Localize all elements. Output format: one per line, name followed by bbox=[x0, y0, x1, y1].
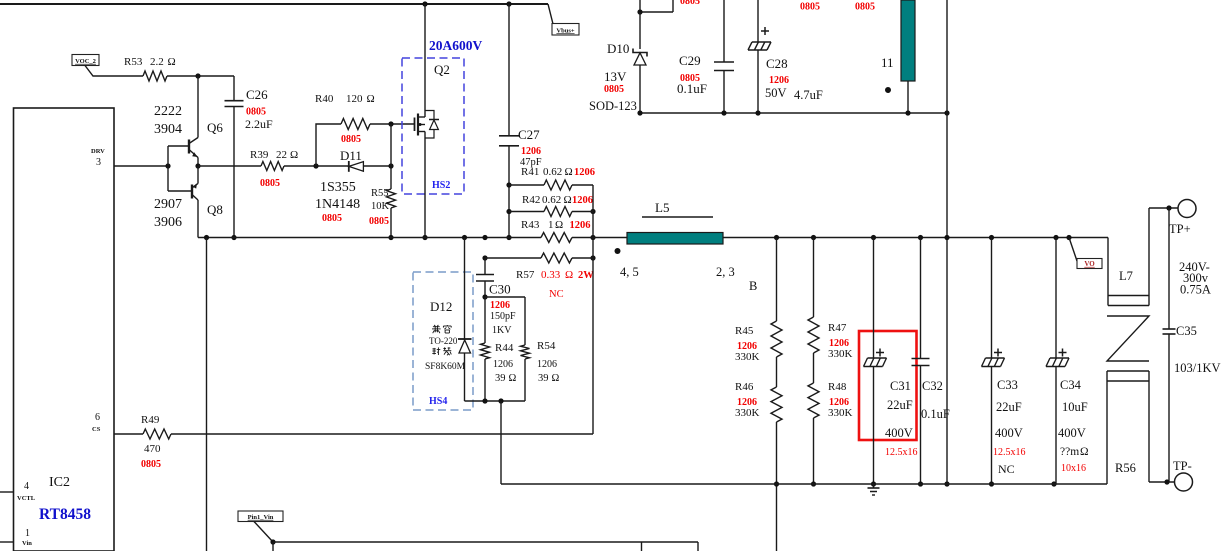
pin 3 DRV label bbox=[91, 148, 105, 168]
junction R41 left bbox=[506, 182, 511, 187]
svg-text:R49: R49 bbox=[141, 414, 160, 426]
label D12 bbox=[430, 299, 452, 314]
resistor R40 bbox=[341, 119, 370, 130]
label C30 bbox=[489, 282, 511, 297]
svg-text:D10: D10 bbox=[607, 41, 629, 56]
svg-text:1N4148: 1N4148 bbox=[315, 197, 360, 212]
label R40 bbox=[315, 93, 375, 145]
resistor R39 bbox=[261, 162, 284, 171]
junction C32 bottom bbox=[918, 481, 923, 486]
junction Pin1 node bbox=[270, 539, 275, 544]
label R43 bbox=[521, 219, 591, 231]
pin 6 CS label bbox=[92, 412, 101, 433]
wire Pin1 diag bbox=[254, 522, 273, 543]
wire D10 anode bbox=[639, 12, 641, 49]
svg-text:1KV: 1KV bbox=[492, 325, 512, 336]
svg-text:1206: 1206 bbox=[521, 146, 541, 157]
label IC2 bbox=[49, 475, 70, 490]
wire secondary ground rail bbox=[501, 483, 1107, 485]
resistor R55 bbox=[387, 189, 396, 208]
svg-text:0805: 0805 bbox=[604, 84, 624, 95]
svg-text:12.5x16: 12.5x16 bbox=[885, 447, 918, 458]
testpoint TP+ bbox=[1178, 200, 1196, 218]
resistor R41 bbox=[544, 180, 572, 190]
wire Q2 drain bbox=[424, 4, 426, 117]
svg-text:2.2: 2.2 bbox=[150, 56, 164, 68]
junction node VCC2-Q6 bbox=[195, 73, 200, 78]
wire CS pin6 bbox=[114, 433, 593, 435]
winding 11 bar bbox=[901, 0, 915, 81]
svg-text:1206: 1206 bbox=[572, 195, 593, 206]
label C32 bbox=[921, 379, 950, 421]
label TP+ bbox=[1169, 222, 1191, 236]
junction TP+ node bbox=[1166, 205, 1171, 210]
label D10 bbox=[607, 41, 629, 56]
svg-text:C27: C27 bbox=[518, 127, 540, 142]
label pins 2 3 bbox=[716, 265, 735, 279]
label 2907 bbox=[154, 197, 182, 212]
svg-text:VCTL: VCTL bbox=[17, 495, 36, 502]
svg-text:4: 4 bbox=[24, 481, 29, 492]
wire sense bus bbox=[592, 185, 594, 434]
label 0805 top cut bbox=[680, 0, 700, 7]
svg-text:150pF: 150pF bbox=[490, 311, 516, 322]
label R57 bbox=[516, 269, 594, 281]
label D12 package bbox=[429, 336, 458, 346]
svg-text:Ω: Ω bbox=[168, 56, 176, 68]
svg-text:39: 39 bbox=[495, 373, 506, 384]
junction R48 bottom bbox=[811, 481, 816, 486]
svg-text:0805: 0805 bbox=[141, 459, 161, 470]
resistor R43 bbox=[541, 233, 572, 243]
svg-text:Ω: Ω bbox=[565, 269, 573, 281]
svg-text:IC2: IC2 bbox=[49, 475, 70, 490]
label D11 0805 bbox=[322, 213, 342, 224]
wire D10 top stub bbox=[640, 0, 673, 12]
label R45 bbox=[735, 325, 760, 363]
junction C26-gnd rail bbox=[231, 235, 236, 240]
svg-text:C32: C32 bbox=[922, 379, 943, 393]
svg-text:R42: R42 bbox=[522, 194, 540, 206]
svg-text:4.7uF: 4.7uF bbox=[794, 88, 823, 102]
label R47 bbox=[828, 322, 853, 360]
svg-text:39: 39 bbox=[538, 373, 549, 384]
label C35 value bbox=[1174, 361, 1221, 375]
svg-text:10K: 10K bbox=[371, 201, 390, 212]
svg-text:50V: 50V bbox=[765, 86, 787, 100]
IC U-IC2 box bbox=[14, 108, 115, 551]
wire secondary vertical bbox=[946, 0, 948, 484]
svg-text:Ω: Ω bbox=[552, 373, 560, 384]
junction C33 bottom bbox=[989, 481, 994, 486]
junction C31 top bbox=[871, 235, 876, 240]
svg-text:1206: 1206 bbox=[490, 300, 510, 311]
svg-text:400V: 400V bbox=[995, 426, 1023, 440]
label R49 bbox=[141, 414, 161, 470]
label pins 4 5 bbox=[620, 265, 639, 279]
junction DRV node bbox=[165, 163, 170, 168]
svg-text:R43: R43 bbox=[521, 219, 540, 231]
junction secondary rail bbox=[944, 235, 949, 240]
net flag Pin1_Vin bbox=[238, 511, 283, 522]
label R44 block bbox=[490, 300, 517, 384]
label C31 bbox=[885, 379, 918, 458]
junction C31 bottom bbox=[871, 481, 876, 486]
svg-text:2222: 2222 bbox=[154, 104, 182, 119]
svg-text:1206: 1206 bbox=[769, 75, 789, 86]
svg-text:D12: D12 bbox=[430, 299, 452, 314]
svg-text:0805: 0805 bbox=[855, 2, 875, 13]
svg-text:3904: 3904 bbox=[154, 122, 182, 137]
svg-text:HS4: HS4 bbox=[429, 396, 447, 407]
inductor L5 bar bbox=[627, 233, 723, 245]
svg-text:R46: R46 bbox=[735, 381, 754, 393]
svg-text:DRV: DRV bbox=[91, 148, 105, 155]
wire R39 to D11 bbox=[284, 165, 349, 167]
label 2222 bbox=[154, 104, 182, 119]
svg-text:330K: 330K bbox=[735, 407, 760, 419]
svg-text:2.2uF: 2.2uF bbox=[245, 117, 273, 131]
junction emitter node bbox=[195, 163, 200, 168]
label 20A600V bbox=[429, 38, 482, 53]
junction R55 rail bbox=[388, 235, 393, 240]
junction R45 top bbox=[774, 235, 779, 240]
label R48 bbox=[828, 381, 853, 419]
testpoint TP- bbox=[1175, 473, 1193, 491]
label L7 bbox=[1119, 269, 1133, 283]
capacitor C33 bbox=[982, 238, 1005, 485]
label Q8 bbox=[207, 202, 223, 217]
label 0805 top b bbox=[855, 2, 875, 13]
svg-text:4, 5: 4, 5 bbox=[620, 265, 639, 279]
svg-text:R40: R40 bbox=[315, 93, 334, 105]
svg-text:R54: R54 bbox=[537, 340, 556, 352]
resistor R42 bbox=[544, 207, 572, 217]
svg-text:R48: R48 bbox=[828, 381, 847, 393]
svg-text:3: 3 bbox=[96, 157, 101, 168]
svg-text:Q2: Q2 bbox=[434, 62, 450, 77]
core Z symbol bbox=[1107, 316, 1149, 361]
resistor R44 bbox=[481, 343, 490, 359]
label R56 bbox=[1115, 461, 1136, 475]
svg-text:NC: NC bbox=[549, 289, 564, 300]
svg-text:CS: CS bbox=[92, 426, 101, 433]
junction C28 bottom bbox=[755, 110, 760, 115]
wire VCC top rail bbox=[0, 4, 553, 24]
junction R57 right bbox=[590, 255, 595, 260]
svg-text:Ω: Ω bbox=[555, 219, 563, 231]
label node B bbox=[749, 279, 757, 293]
label R57 NC bbox=[549, 289, 564, 300]
wire C30 to box bbox=[484, 281, 486, 297]
svg-text:C34: C34 bbox=[1060, 378, 1082, 392]
resistor R54 bbox=[521, 345, 530, 359]
label C26 bbox=[245, 87, 273, 131]
capacitor C34 bbox=[1046, 238, 1069, 485]
heatsink box HS4 bbox=[413, 272, 473, 410]
wire DRV pin3 bbox=[114, 165, 168, 167]
svg-text:Ω: Ω bbox=[565, 166, 573, 178]
label C27 bbox=[518, 127, 542, 168]
wire R42 row bbox=[509, 211, 593, 213]
svg-text:B: B bbox=[749, 279, 757, 293]
svg-text:SOD-123: SOD-123 bbox=[589, 99, 637, 113]
wire R40 to gate bbox=[370, 123, 415, 125]
svg-text:R55: R55 bbox=[371, 188, 389, 199]
svg-text:1S355: 1S355 bbox=[320, 180, 356, 195]
wire C26 bottom lead bbox=[233, 107, 235, 238]
core line L5 bbox=[642, 216, 713, 218]
capacitor C31 bbox=[864, 238, 887, 485]
capacitor C28 bbox=[748, 0, 771, 113]
junction R42 right bbox=[590, 209, 595, 214]
label 13V bbox=[604, 69, 627, 84]
svg-text:0805: 0805 bbox=[369, 216, 389, 227]
junction R43 left bbox=[506, 235, 511, 240]
svg-text:11: 11 bbox=[881, 55, 894, 70]
svg-text:HS2: HS2 bbox=[432, 180, 450, 191]
svg-text:0.1uF: 0.1uF bbox=[677, 81, 707, 96]
label SOD-123 bbox=[589, 99, 637, 113]
svg-text:470: 470 bbox=[144, 443, 161, 455]
wire C27 top lead bbox=[508, 4, 510, 136]
svg-text:400V: 400V bbox=[1058, 426, 1086, 440]
svg-text:3906: 3906 bbox=[154, 215, 182, 230]
junction winding 11 bottom bbox=[905, 110, 910, 115]
wire VO diag bbox=[1069, 238, 1077, 262]
svg-text:L5: L5 bbox=[655, 200, 669, 215]
svg-text:0805: 0805 bbox=[322, 213, 342, 224]
label R54 block bbox=[537, 340, 560, 384]
junction D10 top bbox=[637, 9, 642, 14]
junction VO tap bbox=[1066, 235, 1071, 240]
svg-text:C26: C26 bbox=[246, 87, 268, 102]
label SF8K60M bbox=[425, 362, 466, 372]
capacitor C29 bbox=[714, 0, 734, 113]
svg-text:VO: VO bbox=[1084, 260, 1095, 268]
label R55 bbox=[369, 188, 390, 227]
label R53 bbox=[124, 56, 176, 68]
resistor R56 body bbox=[1107, 371, 1149, 484]
svg-text:103/1KV: 103/1KV bbox=[1174, 361, 1221, 375]
wire Q2 source bbox=[424, 132, 426, 238]
svg-text:C31: C31 bbox=[890, 379, 911, 393]
svg-text:22: 22 bbox=[276, 149, 287, 161]
svg-text:1206: 1206 bbox=[493, 359, 513, 370]
svg-text:0.75A: 0.75A bbox=[1180, 283, 1211, 297]
svg-text:L7: L7 bbox=[1119, 269, 1133, 283]
svg-text:R45: R45 bbox=[735, 325, 754, 337]
wire C30 top lead bbox=[484, 258, 486, 274]
transistor Q6 bbox=[168, 76, 198, 166]
wire vertical down from rail bbox=[206, 238, 208, 551]
svg-text:Pin1_Vin: Pin1_Vin bbox=[248, 514, 274, 521]
svg-text:1206: 1206 bbox=[574, 167, 595, 178]
label C35 bbox=[1176, 324, 1197, 338]
svg-text:2907: 2907 bbox=[154, 197, 182, 212]
svg-text:1: 1 bbox=[25, 528, 30, 539]
svg-text:2W: 2W bbox=[578, 270, 594, 281]
svg-text:Ω: Ω bbox=[290, 149, 298, 161]
junction Q2 drain top bbox=[422, 1, 427, 6]
capacitor C27 bbox=[499, 136, 519, 146]
label C29 bbox=[677, 53, 707, 96]
svg-text:C33: C33 bbox=[997, 378, 1018, 392]
svg-text:C35: C35 bbox=[1176, 324, 1197, 338]
svg-text:Ω: Ω bbox=[1080, 446, 1089, 458]
wire R40 branch bbox=[316, 124, 341, 166]
net flag VO bbox=[1077, 259, 1102, 269]
svg-text:22uF: 22uF bbox=[887, 398, 913, 412]
svg-text:Ω: Ω bbox=[509, 373, 517, 384]
svg-text:Ω: Ω bbox=[367, 93, 375, 105]
wire emitter to R39 bbox=[198, 165, 261, 167]
wire TP+ lead bbox=[1149, 207, 1178, 209]
wire pin1 stub bbox=[0, 541, 14, 543]
svg-text:330K: 330K bbox=[735, 351, 760, 363]
junction D10 bottom bbox=[637, 110, 642, 115]
transistor Q8 bbox=[168, 166, 198, 238]
svg-text:R47: R47 bbox=[828, 322, 847, 334]
junction Q2 source rail bbox=[422, 235, 427, 240]
label D11 bbox=[340, 148, 362, 163]
junction sec rail bottom bbox=[944, 481, 949, 486]
svg-text:SF8K60M: SF8K60M bbox=[425, 362, 466, 372]
svg-text:Q8: Q8 bbox=[207, 202, 223, 217]
polarity dot winding 11 bbox=[885, 87, 891, 93]
polarity dot L5 bbox=[615, 248, 621, 254]
label 1S355 bbox=[320, 180, 356, 195]
junction C33 top bbox=[989, 235, 994, 240]
capacitor C32 bbox=[912, 238, 930, 485]
label TP- bbox=[1173, 459, 1192, 473]
label D12 chinese1 bbox=[432, 325, 451, 333]
label C33 bbox=[993, 378, 1026, 476]
junction C30 rail bbox=[482, 235, 487, 240]
svg-text:VOC_2: VOC_2 bbox=[75, 58, 96, 65]
junction R40 tap bbox=[313, 163, 318, 168]
svg-text:0805: 0805 bbox=[260, 178, 280, 189]
junction R57 left bbox=[482, 255, 487, 260]
wire TP- lead bbox=[1149, 481, 1174, 483]
svg-text:Vbus+: Vbus+ bbox=[556, 27, 574, 34]
resistor R48 bbox=[808, 383, 819, 484]
svg-text:RT8458: RT8458 bbox=[39, 506, 91, 523]
heatsink box HS2 bbox=[402, 58, 464, 194]
svg-text:D11: D11 bbox=[340, 148, 362, 163]
junction R46 bottom bbox=[774, 481, 779, 486]
svg-text:Vin: Vin bbox=[22, 540, 32, 547]
svg-text:0805: 0805 bbox=[341, 134, 361, 145]
capacitor C26 bbox=[225, 101, 244, 107]
svg-text:C29: C29 bbox=[679, 53, 701, 68]
wire aux gnd rail bbox=[640, 112, 947, 114]
label C28 bbox=[765, 56, 823, 102]
svg-text:0805: 0805 bbox=[246, 107, 266, 118]
svg-text:R39: R39 bbox=[250, 149, 269, 161]
net flag Vbus+ bbox=[552, 24, 579, 36]
svg-text:0805: 0805 bbox=[680, 0, 700, 7]
resistor R49 bbox=[143, 429, 171, 439]
svg-text:R41: R41 bbox=[521, 166, 539, 178]
svg-text:12.5x16: 12.5x16 bbox=[993, 447, 1026, 458]
junction C27 top bbox=[506, 1, 511, 6]
diode D10 zener bbox=[633, 49, 647, 114]
label 1N4148 bbox=[315, 197, 360, 212]
wire VOC_2 to R53 bbox=[85, 66, 143, 77]
wire R53 to C26 bbox=[167, 75, 234, 77]
resistor R46 bbox=[771, 387, 782, 551]
junction R47 top bbox=[811, 235, 816, 240]
junction box top-left bbox=[482, 294, 487, 299]
highlight box C31 bbox=[859, 331, 917, 440]
svg-text:??m: ??m bbox=[1060, 446, 1079, 458]
svg-text:330K: 330K bbox=[828, 348, 853, 360]
svg-text:R53: R53 bbox=[124, 56, 143, 68]
svg-text:10x16: 10x16 bbox=[1061, 463, 1086, 474]
resistor R53 bbox=[143, 71, 167, 81]
label R39 bbox=[250, 149, 298, 189]
pin 4 VCTL label bbox=[17, 481, 36, 502]
label R46 bbox=[735, 381, 760, 419]
wire gate bus bbox=[390, 124, 392, 189]
snubber box wires bbox=[465, 297, 526, 401]
pin 1 Vin label bbox=[22, 528, 32, 547]
wire gnd tap down bbox=[500, 401, 502, 484]
svg-text:400V: 400V bbox=[885, 426, 913, 440]
svg-text:10uF: 10uF bbox=[1062, 400, 1088, 414]
svg-text:6: 6 bbox=[95, 412, 100, 423]
junction C34 bottom bbox=[1051, 481, 1056, 486]
resistor chain R47 bbox=[808, 238, 819, 384]
label RT8458 bbox=[39, 506, 91, 523]
junction aux rail end bbox=[944, 110, 949, 115]
wire C26 top lead bbox=[233, 76, 235, 100]
label 3904 bbox=[154, 122, 182, 137]
ground symbol bbox=[868, 484, 880, 495]
svg-text:TO-220: TO-220 bbox=[429, 336, 458, 346]
svg-text:0.62: 0.62 bbox=[542, 194, 561, 206]
net flag VOC_2 bbox=[72, 55, 99, 66]
label R42 bbox=[522, 194, 593, 206]
svg-text:TP+: TP+ bbox=[1169, 222, 1191, 236]
svg-text:Q6: Q6 bbox=[207, 120, 223, 135]
label D10 0805 bbox=[604, 84, 624, 95]
svg-text:Ω: Ω bbox=[564, 194, 572, 206]
label Q6 bbox=[207, 120, 223, 135]
svg-text:2, 3: 2, 3 bbox=[716, 265, 735, 279]
svg-text:C30: C30 bbox=[489, 282, 511, 297]
svg-text:0.1uF: 0.1uF bbox=[921, 407, 950, 421]
capacitor C30 bbox=[476, 275, 494, 282]
capacitor C35 bbox=[1163, 208, 1176, 482]
svg-text:0805: 0805 bbox=[800, 2, 820, 13]
label 3906 bbox=[154, 215, 182, 230]
wire main switch rail bbox=[198, 237, 1108, 239]
resistor chain R45 bbox=[771, 238, 782, 388]
svg-text:1: 1 bbox=[548, 219, 554, 231]
label HS2 bbox=[432, 180, 450, 191]
resistor R57 bbox=[541, 253, 572, 263]
label Q2 bbox=[434, 62, 450, 77]
junction C29 bottom bbox=[721, 110, 726, 115]
wire winding 11 lead bbox=[907, 81, 909, 113]
svg-text:1206: 1206 bbox=[570, 220, 591, 231]
junction gate node bbox=[388, 121, 393, 126]
svg-text:22uF: 22uF bbox=[996, 400, 1022, 414]
svg-text:330K: 330K bbox=[828, 407, 853, 419]
svg-text:120: 120 bbox=[346, 93, 363, 105]
